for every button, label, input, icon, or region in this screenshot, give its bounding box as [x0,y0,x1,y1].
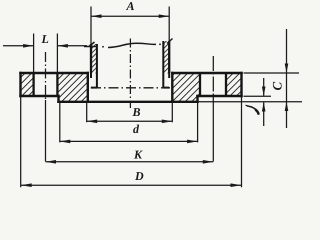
dimension B extension lines [87,103,173,123]
label B [132,108,140,116]
extension line face bottom to right for C and f [198,101,303,103]
label L [41,35,48,43]
dimension C line with outside arrows [285,29,289,128]
label A [126,2,134,10]
flange hatched block right-inner with raised face [173,74,200,102]
dimension A extension lines [91,7,169,46]
label K [134,151,143,159]
dimension f line with outside arrows [262,78,266,126]
flange hatched block far-right [226,74,241,96]
dimension d extension lines [60,103,198,142]
dimension D line with arrows [21,183,242,187]
label f rotated [246,105,258,113]
label D [135,172,143,180]
dimension D extension lines [21,97,242,187]
bolt center line right [212,56,214,162]
extension line flange top to right for C [244,72,300,74]
label C rotated [273,82,282,90]
pipe wall right hatched [163,41,169,73]
break line at pipe top [84,39,173,48]
flange outline [21,73,242,102]
dimension d line with arrows [60,140,198,144]
pipe wall left hatched [91,44,97,73]
flange hatched block far-left [22,74,34,96]
dimension L extension lines [34,34,58,73]
label d [133,125,139,133]
dimension L line with outside arrows [3,44,87,48]
chain line inside bore [91,87,170,89]
vertical center line of flange axis [129,39,131,109]
extension line rim bottom to right for f [244,95,272,97]
pipe outer wall lines [91,41,169,73]
bolt hole left edges [34,73,58,96]
dimension A line with arrows [91,14,169,18]
bolt hole right edges [200,73,226,96]
dimension B line with arrows [87,120,173,124]
flange hatched block left-inner with raised face [58,74,88,102]
dimension K line with arrows [46,160,214,164]
bolt center line left [45,52,47,162]
pipe inner wall lines and end faces [91,41,169,88]
